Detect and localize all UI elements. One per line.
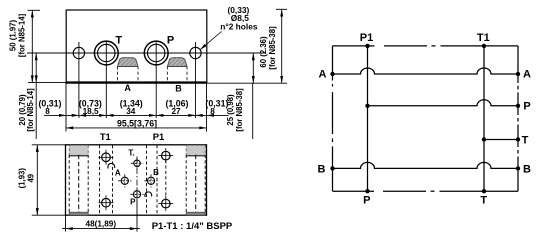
svg-text:A: A xyxy=(124,83,131,93)
svg-text:T1: T1 xyxy=(100,131,111,142)
svg-text:27: 27 xyxy=(171,107,181,116)
svg-text:P: P xyxy=(167,35,174,47)
svg-text:T: T xyxy=(522,134,529,146)
svg-text:[for N85-14]: [for N85-14] xyxy=(17,13,26,57)
svg-text:P: P xyxy=(523,101,530,113)
svg-text:50 (1.97): 50 (1.97) xyxy=(9,19,18,51)
svg-text:8: 8 xyxy=(45,107,50,116)
svg-text:n°2 holes: n°2 holes xyxy=(220,21,258,31)
svg-text:[for N85-38]: [for N85-38] xyxy=(268,26,277,70)
svg-text:T1: T1 xyxy=(477,32,490,44)
svg-text:T: T xyxy=(115,35,122,47)
svg-text:[for N85-14]: [for N85-14] xyxy=(26,88,35,132)
svg-text:T.: T. xyxy=(128,149,134,158)
svg-text:B: B xyxy=(153,168,159,177)
svg-text:49: 49 xyxy=(27,173,36,182)
svg-text:B: B xyxy=(318,163,326,175)
svg-text:95,5[3,76]: 95,5[3,76] xyxy=(117,119,157,129)
svg-text:P1-T1 : 1/4" BSPP: P1-T1 : 1/4" BSPP xyxy=(152,221,233,232)
svg-text:P1: P1 xyxy=(153,131,164,142)
svg-text:A: A xyxy=(319,69,327,81)
svg-text:B: B xyxy=(175,84,182,94)
svg-text:[for N85-38]: [for N85-38] xyxy=(235,88,244,132)
svg-text:T: T xyxy=(480,195,487,207)
svg-text:(0,31): (0,31) xyxy=(205,98,228,108)
svg-text:P1: P1 xyxy=(360,32,373,44)
svg-text:(1,93): (1,93) xyxy=(18,168,27,189)
svg-text:34: 34 xyxy=(126,107,136,116)
svg-text:P: P xyxy=(363,195,370,207)
svg-text:B: B xyxy=(523,163,531,175)
svg-text:60 (2.36): 60 (2.36) xyxy=(259,36,268,68)
svg-text:48(1,89): 48(1,89) xyxy=(86,219,117,228)
svg-text:8: 8 xyxy=(210,107,215,116)
svg-text:A: A xyxy=(523,69,531,81)
svg-text:P: P xyxy=(130,198,136,207)
svg-text:(0,31): (0,31) xyxy=(39,98,62,108)
svg-text:18,5: 18,5 xyxy=(83,107,99,116)
svg-text:A: A xyxy=(115,169,121,178)
